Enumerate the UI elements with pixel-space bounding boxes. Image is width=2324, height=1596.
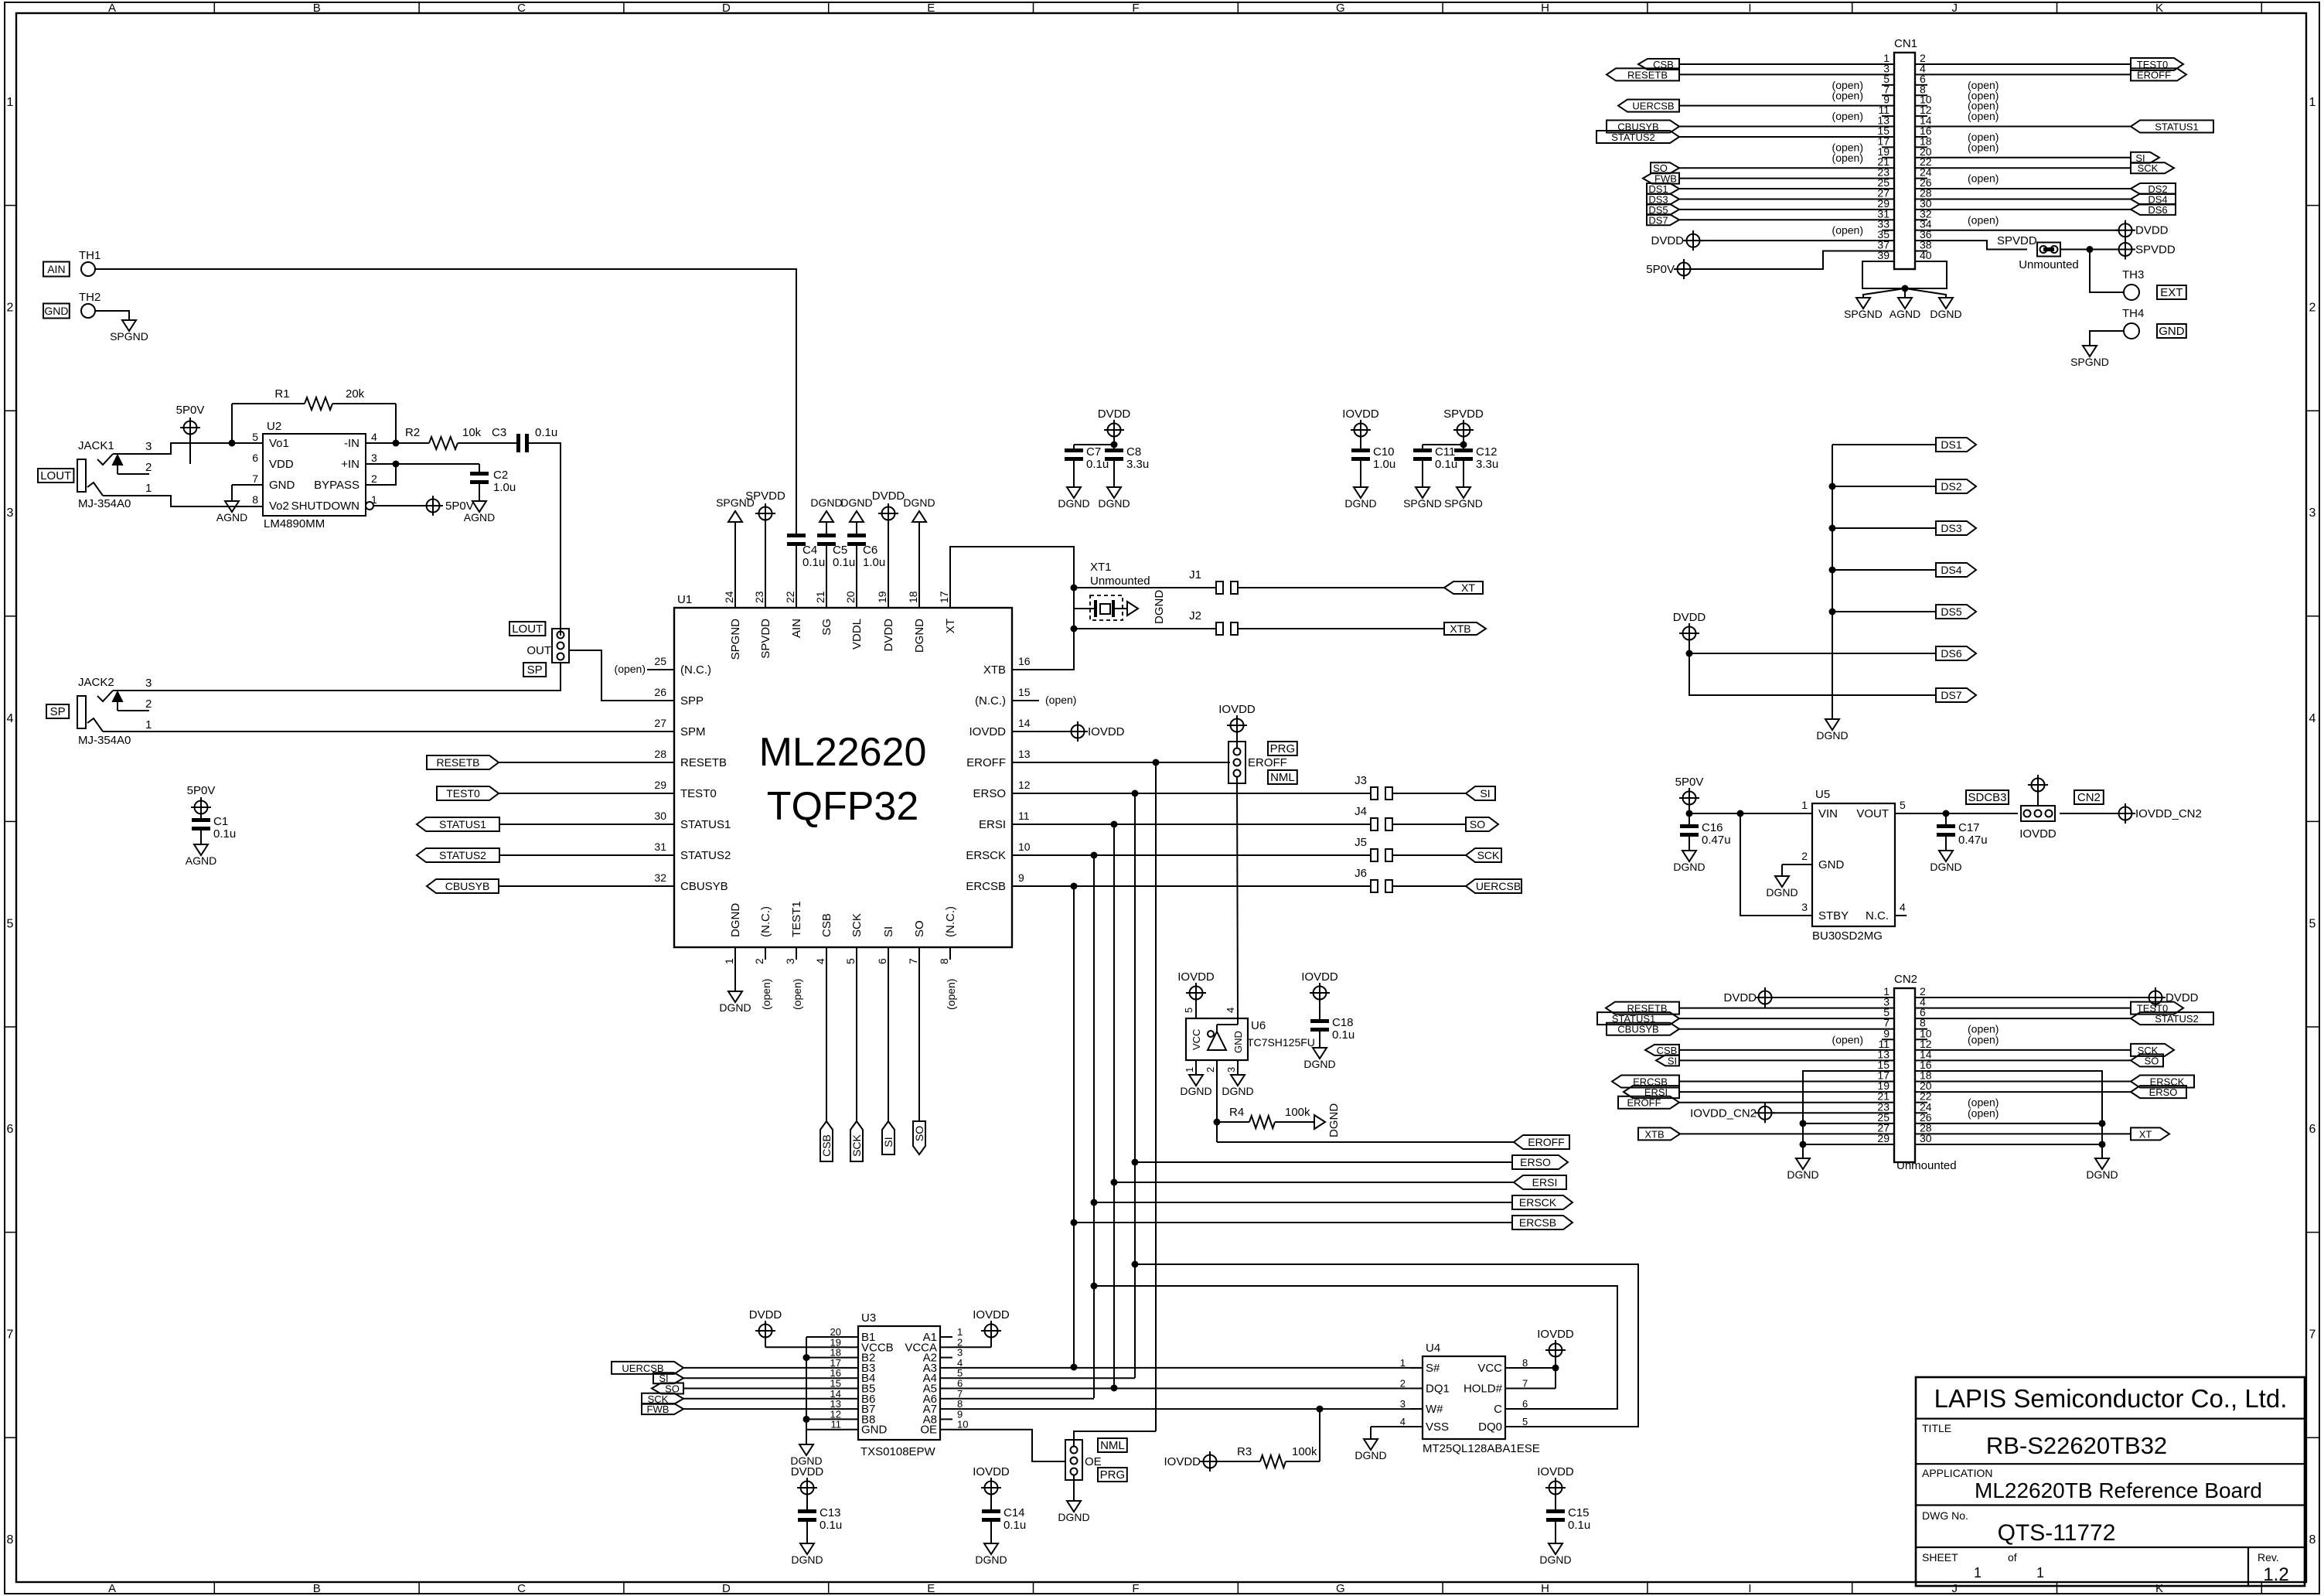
svg-text:15: 15	[1018, 686, 1031, 698]
svg-text:22: 22	[784, 591, 796, 603]
ground DGND at C16	[1673, 851, 1705, 873]
svg-text:LOUT: LOUT	[512, 622, 543, 636]
svg-text:(open): (open)	[1968, 1107, 1999, 1119]
svg-text:20: 20	[844, 591, 857, 603]
svg-text:TH4: TH4	[2122, 307, 2144, 320]
wire OE jumper bottom to DGND	[1073, 1475, 1075, 1501]
svg-text:VCC: VCC	[1477, 1362, 1502, 1375]
svg-text:APPLICATION: APPLICATION	[1922, 1467, 1993, 1479]
ground SPGND at TH2	[110, 320, 148, 343]
svg-text:28: 28	[654, 748, 666, 760]
node STATUS2 flag to U1 pin31	[417, 848, 647, 862]
resistor R4 100k to DGND	[1217, 1106, 1314, 1128]
node ERSO flag from CN2 pin20	[1927, 1086, 2186, 1098]
svg-text:1: 1	[723, 958, 735, 964]
svg-text:4: 4	[7, 712, 14, 725]
svg-text:SPVDD: SPVDD	[1997, 234, 2037, 247]
power IOVDD_CN2 to CN2 pin23	[1690, 1103, 1882, 1123]
(open) at CN1 pin18	[1968, 141, 1999, 153]
svg-text:16: 16	[1018, 655, 1031, 667]
svg-text:(open): (open)	[760, 979, 772, 1010]
pin 3 (open)	[791, 947, 803, 1010]
header OE select (NML/PRG)	[1065, 1440, 1102, 1480]
svg-text:C4: C4	[802, 544, 817, 557]
svg-text:100k: 100k	[1292, 1445, 1317, 1458]
(open) at CN2 pin10	[1968, 1033, 1999, 1045]
node SI flag	[1466, 786, 1495, 800]
wire EROFF to OE jumper top pin	[1074, 1431, 1156, 1446]
svg-text:H: H	[1541, 2, 1549, 15]
svg-text:C6: C6	[863, 544, 877, 557]
svg-text:U3: U3	[861, 1311, 876, 1325]
svg-text:ERSCK: ERSCK	[966, 849, 1006, 862]
svg-text:21: 21	[814, 591, 826, 603]
svg-text:C16: C16	[1702, 821, 1723, 834]
power IOVDD at U6 pin5	[1177, 970, 1215, 1018]
ground DGND at XT1 case	[1127, 590, 1166, 624]
wire DS3	[1832, 527, 1936, 529]
svg-text:VDD: VDD	[269, 458, 294, 471]
svg-text:AIN: AIN	[790, 619, 803, 638]
svg-text:(open): (open)	[1045, 694, 1076, 706]
svg-text:0.1u: 0.1u	[1332, 1028, 1355, 1042]
wire DS6	[1686, 650, 1937, 657]
capacitor C18 0.1u at U6	[1301, 970, 1355, 1048]
svg-text:C17: C17	[1958, 821, 1980, 834]
svg-text:CBUSYB: CBUSYB	[680, 880, 728, 893]
node SI flag to U3 B4	[653, 1373, 846, 1384]
wire U3 A7 to U4 W# (FWB net)	[952, 1406, 1423, 1413]
svg-text:GND: GND	[1818, 858, 1845, 871]
node ERSI flag to CN2 pin19	[1624, 1086, 1882, 1098]
svg-text:(open): (open)	[1968, 110, 1999, 122]
ground SPGND at CN1	[1844, 298, 1883, 320]
svg-text:C2: C2	[493, 469, 508, 482]
wire U3 OE to jumper	[952, 1430, 1065, 1461]
svg-text:AIN: AIN	[47, 263, 65, 275]
svg-text:40: 40	[1920, 249, 1932, 261]
svg-text:VSS: VSS	[1426, 1420, 1449, 1434]
ground DGND at DS bus	[1816, 719, 1848, 742]
wire U6 pin2 output (EROFF)	[1214, 1060, 1221, 1142]
header PRG/NML select jumper	[1228, 742, 1287, 783]
node DS7 flag to CN1 pin31	[1647, 214, 1882, 226]
svg-text:4: 4	[371, 431, 377, 443]
node DS1 flag	[1936, 438, 1976, 452]
wire JACK2 tip to OUT header	[113, 664, 561, 691]
wire U2 +IN pin3 to C2	[366, 461, 479, 468]
svg-text:UERCSB: UERCSB	[1632, 101, 1674, 112]
pin 15 (open)	[1045, 694, 1076, 706]
svg-text:11: 11	[1018, 810, 1030, 822]
wire U3 A5 to U4 DQ1 (ERSI net)	[952, 1388, 1423, 1390]
svg-text:2: 2	[145, 697, 152, 711]
svg-text:0.1u: 0.1u	[1435, 458, 1457, 471]
svg-text:1: 1	[145, 482, 152, 495]
svg-text:C15: C15	[1568, 1506, 1590, 1519]
svg-text:TEST0: TEST0	[446, 787, 480, 800]
svg-text:SG: SG	[820, 619, 833, 636]
svg-text:XT: XT	[2139, 1128, 2152, 1140]
ground DGND at C14	[975, 1543, 1007, 1566]
svg-text:17: 17	[938, 591, 950, 603]
(open) at CN1 pin16	[1968, 131, 1999, 143]
ground DGND at OE jumper	[1058, 1501, 1089, 1523]
wire DS1	[1832, 444, 1936, 445]
svg-text:DGND: DGND	[1673, 861, 1705, 873]
svg-text:0.1u: 0.1u	[1004, 1519, 1026, 1532]
svg-text:1.2: 1.2	[2263, 1564, 2288, 1585]
node SO flag	[913, 1121, 925, 1154]
jumper J5	[1355, 836, 1392, 861]
svg-text:SPGND: SPGND	[1403, 497, 1442, 510]
svg-text:ERSO: ERSO	[1520, 1156, 1551, 1168]
wire ERSO branch to U4 DQ0	[1135, 1264, 1638, 1427]
svg-text:R4: R4	[1229, 1106, 1244, 1119]
svg-text:DS4: DS4	[1941, 564, 1961, 576]
svg-text:25: 25	[654, 655, 666, 667]
wire J5 to SCK flag	[1392, 854, 1466, 856]
node TH2 (GND terminal)	[43, 291, 101, 319]
svg-text:1: 1	[2036, 1565, 2044, 1581]
svg-text:SCK: SCK	[1477, 849, 1500, 861]
ground SPGND at C11	[1403, 487, 1442, 510]
svg-text:7: 7	[7, 1328, 14, 1342]
svg-text:3: 3	[145, 440, 152, 453]
svg-text:3: 3	[145, 677, 152, 690]
svg-text:SCK: SCK	[2138, 162, 2159, 174]
wire ERSI to flag	[1114, 1182, 1514, 1183]
svg-text:AGND: AGND	[1890, 308, 1920, 320]
svg-text:STATUS2: STATUS2	[439, 849, 486, 861]
svg-text:IOVDD: IOVDD	[1088, 725, 1125, 738]
svg-text:SO: SO	[913, 920, 926, 937]
svg-text:J6: J6	[1355, 867, 1367, 880]
svg-text:DGND: DGND	[1222, 1085, 1253, 1097]
power IOVDD at U4 VCC/HOLD#	[1518, 1328, 1574, 1389]
svg-text:DVDD: DVDD	[1651, 234, 1684, 247]
wire U3 B1/B2/B8/GND to DGND	[803, 1337, 847, 1444]
svg-text:XT1: XT1	[1090, 561, 1112, 574]
wire to TH3	[2090, 250, 2124, 293]
svg-text:UERCSB: UERCSB	[1476, 880, 1521, 892]
connector CN2 30-pin (Unmounted header)	[1877, 973, 1956, 1172]
node LOUT label at header	[509, 622, 545, 636]
svg-text:SI: SI	[882, 1137, 895, 1147]
node CBUSYB flag to U1 pin32	[427, 879, 647, 893]
svg-text:(N.C.): (N.C.)	[759, 906, 772, 937]
wire ERSI from U1 pin11 to J4	[1039, 821, 1371, 828]
svg-text:0.1u: 0.1u	[833, 556, 855, 569]
wire J1 to XT flag	[1238, 587, 1444, 588]
svg-text:5: 5	[1183, 1008, 1194, 1013]
fuse SPVDD jumper (Unmounted)	[2019, 243, 2079, 272]
node SI flag	[882, 1121, 895, 1154]
svg-text:DVDD: DVDD	[1098, 408, 1131, 421]
svg-text:3.3u: 3.3u	[1476, 458, 1498, 471]
svg-text:of: of	[2008, 1551, 2017, 1564]
svg-text:C12: C12	[1476, 445, 1498, 459]
svg-text:GND: GND	[861, 1424, 888, 1437]
wire ERSO from U1 pin12 to J3	[1039, 790, 1371, 797]
node CSB flag to CN2 pin11	[1645, 1045, 1882, 1056]
svg-text:26: 26	[654, 686, 666, 698]
node DS3 flag	[1936, 521, 1976, 535]
svg-text:AGND: AGND	[464, 511, 495, 523]
(open) at CN2 pin24	[1968, 1107, 1999, 1119]
svg-text:(open): (open)	[1968, 213, 1999, 226]
wire C3 to OUT header	[526, 443, 561, 636]
svg-text:DGND: DGND	[2086, 1168, 2118, 1181]
wire U5 STBY strap	[1740, 813, 1812, 916]
capacitor C12 3.3u	[1454, 445, 1498, 487]
svg-text:DS5: DS5	[1941, 605, 1961, 618]
wire 5P0V to U5 VIN	[1689, 810, 1812, 817]
capacitor C10 1.0u	[1351, 445, 1395, 487]
svg-text:1: 1	[145, 718, 152, 731]
svg-text:J4: J4	[1355, 805, 1367, 818]
svg-text:DVDD: DVDD	[1673, 611, 1706, 624]
ground DGND above C6	[840, 496, 872, 522]
svg-text:Vo2: Vo2	[269, 500, 289, 513]
svg-text:2: 2	[753, 958, 765, 964]
svg-text:ERSCK: ERSCK	[1519, 1196, 1557, 1209]
power IOVDD at U1 pin14	[1068, 721, 1125, 742]
svg-text:SI: SI	[1480, 787, 1490, 800]
svg-text:STATUS2: STATUS2	[680, 849, 731, 862]
node SO flag to U3 B5	[652, 1383, 846, 1395]
wire XT line to J1	[1071, 585, 1217, 592]
svg-text:2: 2	[1205, 1067, 1216, 1073]
node SCK flag	[850, 1121, 863, 1161]
svg-text:(open): (open)	[1832, 224, 1863, 237]
wire DS5	[1832, 611, 1936, 612]
node CSB flag	[820, 1121, 833, 1161]
svg-text:DVDD: DVDD	[872, 489, 905, 503]
node EROFF flag	[1514, 1135, 1569, 1149]
IC U3 TXS0108EPW level shifter	[830, 1311, 969, 1458]
svg-text:TXS0108EPW: TXS0108EPW	[860, 1445, 936, 1458]
svg-text:IOVDD: IOVDD	[1164, 1455, 1201, 1468]
svg-text:MT25QL128ABA1ESE: MT25QL128ABA1ESE	[1423, 1442, 1540, 1455]
svg-text:BYPASS: BYPASS	[314, 479, 360, 492]
ground AGND at C2	[464, 501, 495, 523]
power DVDD at C7/C8	[1098, 408, 1131, 452]
svg-text:IOVDD: IOVDD	[2019, 827, 2057, 841]
svg-text:TEST1: TEST1	[790, 901, 803, 937]
node DS4 flag	[1936, 563, 1976, 577]
node DS1 flag to CN1 pin25	[1647, 183, 1882, 195]
capacitor C14 0.1u	[982, 1506, 1026, 1543]
svg-text:SCK: SCK	[850, 1134, 863, 1156]
svg-text:8: 8	[7, 1533, 14, 1547]
svg-text:(open): (open)	[1968, 172, 1999, 185]
power DVDD to CN1 pin35	[1651, 230, 1882, 251]
svg-text:J5: J5	[1355, 836, 1367, 849]
svg-text:GND: GND	[2159, 325, 2185, 338]
svg-text:A: A	[108, 1582, 116, 1595]
ground DGND at CN2 right	[2086, 1158, 2118, 1181]
resistor R2 10k	[405, 426, 516, 449]
ground AGND at U2 pin7	[216, 501, 247, 523]
svg-text:IOVDD: IOVDD	[1177, 970, 1215, 984]
svg-text:IOVDD: IOVDD	[1218, 703, 1256, 716]
svg-text:SPVDD: SPVDD	[1443, 408, 1484, 421]
power SPVDD terminal	[2115, 240, 2176, 260]
wire U2 -IN pin4	[366, 440, 429, 447]
svg-text:R1: R1	[274, 387, 289, 401]
svg-text:5: 5	[1900, 799, 1906, 811]
wire CN1 pin39 ground	[1862, 261, 1905, 288]
svg-text:0.1u: 0.1u	[802, 556, 825, 569]
svg-text:ERSI: ERSI	[1532, 1176, 1558, 1188]
svg-text:DGND: DGND	[719, 1001, 751, 1014]
svg-text:DVDD: DVDD	[791, 1465, 824, 1478]
node SI flag from CN1 pin20	[1927, 152, 2159, 164]
capacitor C13 0.1u	[798, 1506, 842, 1543]
svg-text:2: 2	[371, 472, 377, 485]
wire CSB from U1 pin4	[826, 947, 827, 1121]
node ERSI flag	[1514, 1175, 1566, 1189]
ground DGND right-arrow at R4	[1314, 1103, 1341, 1137]
svg-text:J: J	[1951, 2, 1958, 15]
ground DGND at C7	[1058, 487, 1089, 510]
resistor R1 20k feedback	[232, 387, 396, 443]
node EROFF flag to CN2 pin21	[1618, 1096, 1882, 1109]
node SP label at header	[523, 663, 546, 677]
(open) at CN1 pin6	[1968, 79, 1999, 91]
svg-text:2: 2	[145, 461, 152, 474]
node DS5 flag	[1936, 605, 1976, 619]
node CBUSYB flag to CN2 pin7	[1607, 1023, 1882, 1035]
power IOVDD at U3 VCCA	[952, 1308, 1010, 1347]
node TEST0 flag from CN1 pin2	[1927, 58, 2183, 70]
svg-text:SHEET: SHEET	[1922, 1551, 1958, 1564]
svg-text:IOVDD: IOVDD	[1537, 1328, 1574, 1341]
svg-text:1: 1	[1801, 799, 1808, 811]
svg-text:12: 12	[1018, 779, 1031, 791]
wire U2 SHUTDOWN pin1 to 5P0V	[373, 505, 426, 506]
svg-text:SO: SO	[2145, 1055, 2159, 1066]
svg-text:3: 3	[371, 452, 377, 464]
svg-text:CN2: CN2	[2077, 791, 2101, 804]
svg-text:1: 1	[1400, 1357, 1406, 1369]
svg-text:DGND: DGND	[1355, 1449, 1386, 1461]
svg-text:S#: S#	[1426, 1362, 1440, 1375]
svg-text:SDCB3: SDCB3	[1968, 791, 2006, 804]
node STATUS2 flag from CN2 pin6	[1927, 1012, 2213, 1025]
svg-text:C5: C5	[833, 544, 847, 557]
svg-text:EXT: EXT	[2160, 286, 2183, 299]
svg-text:MJ-354A0: MJ-354A0	[78, 734, 131, 747]
op-amp U2 LM4890MM audio amplifier	[252, 420, 377, 530]
svg-text:6: 6	[2309, 1123, 2316, 1136]
svg-text:30: 30	[654, 810, 666, 822]
svg-text:U6: U6	[1251, 1019, 1266, 1032]
wire U2 BYPASS pin2	[366, 464, 396, 485]
wire SCK from U1 pin5	[856, 947, 857, 1121]
wire header to IOVDD_CN2	[2060, 813, 2118, 814]
svg-text:SPGND: SPGND	[729, 619, 742, 660]
svg-text:0.1u: 0.1u	[820, 1519, 842, 1532]
svg-text:SPGND: SPGND	[1844, 308, 1883, 320]
wire U2 GND pin7 to AGND	[232, 485, 263, 501]
node SDCB3 label	[1966, 790, 2009, 804]
node DS5 flag to CN1 pin29	[1647, 204, 1882, 216]
svg-text:OE: OE	[920, 1424, 937, 1437]
svg-text:EROFF: EROFF	[1627, 1097, 1661, 1109]
svg-text:CN2: CN2	[1894, 973, 1917, 986]
wire OUT header bottom pin to JACK2 tip	[560, 663, 561, 667]
svg-text:3: 3	[2309, 506, 2316, 520]
svg-text:C: C	[1494, 1403, 1502, 1416]
svg-text:STATUS2: STATUS2	[2155, 1013, 2199, 1025]
ground DGND at C15	[1539, 1543, 1571, 1566]
node PRG label	[1098, 1468, 1127, 1482]
wire XTB line to J2	[1071, 626, 1217, 633]
svg-text:U5: U5	[1815, 788, 1830, 801]
node STATUS1 flag from CN1 pin14	[1927, 121, 2213, 133]
svg-text:1: 1	[7, 96, 14, 109]
wire EROFF from U1 pin13 to PRG/NML jumper	[1039, 759, 1230, 766]
wire EROFF vertical bus	[1155, 762, 1157, 1431]
svg-text:NML: NML	[1270, 771, 1295, 784]
wire ERSCK to flag	[1094, 1202, 1512, 1203]
svg-text:C: C	[517, 1582, 526, 1595]
svg-text:STBY: STBY	[1818, 909, 1849, 922]
svg-text:SPVDD: SPVDD	[2135, 244, 2176, 257]
power SPVDD at C11/C12	[1443, 408, 1484, 452]
svg-text:DS2: DS2	[1941, 480, 1961, 493]
svg-text:FWB: FWB	[647, 1403, 670, 1415]
capacitor C5 0.1u on SG	[817, 522, 855, 608]
svg-text:DGND: DGND	[1153, 590, 1166, 624]
svg-text:DVDD: DVDD	[882, 619, 895, 652]
svg-text:4: 4	[1400, 1416, 1406, 1427]
node CBUSYB flag to CN1 pin13	[1607, 121, 1882, 133]
svg-text:(open): (open)	[1968, 1033, 1999, 1045]
svg-text:11: 11	[831, 1419, 842, 1431]
node ERSO flag	[1512, 1155, 1568, 1169]
node EROFF flag from CN1 pin4	[1927, 68, 2186, 80]
wire XT from U1 pin17	[950, 547, 1074, 608]
power DVDD terminal from CN1 pin34	[1927, 220, 2169, 240]
svg-text:RESETB: RESETB	[1627, 69, 1668, 80]
wire CN2 pin15/25/29 to DGND	[1800, 1071, 1883, 1158]
node TH4 terminal GND	[2122, 307, 2186, 339]
svg-text:1: 1	[1184, 1067, 1195, 1073]
svg-text:3: 3	[1801, 901, 1808, 913]
svg-text:SHUTDOWN: SHUTDOWN	[291, 500, 360, 513]
svg-text:4: 4	[814, 958, 826, 964]
svg-text:RESETB: RESETB	[436, 756, 479, 769]
svg-text:SPP: SPP	[680, 694, 704, 708]
svg-text:DQ1: DQ1	[1426, 1383, 1450, 1396]
svg-text:7: 7	[907, 958, 919, 964]
ground DGND at CN1	[1930, 298, 1961, 320]
power IOVDD_CN2 terminal	[2115, 803, 2202, 824]
svg-text:SPVDD: SPVDD	[759, 619, 772, 659]
(open) at CN1 pin32	[1968, 213, 1999, 226]
svg-text:K: K	[2155, 1582, 2163, 1595]
svg-text:B: B	[313, 1582, 321, 1595]
capacitor C8 3.3u	[1105, 445, 1149, 487]
wire ERSCK from U1 pin10 to J5	[1039, 852, 1371, 859]
svg-text:27: 27	[654, 717, 666, 729]
svg-text:SP: SP	[50, 705, 66, 718]
svg-text:VCC: VCC	[1191, 1029, 1202, 1050]
(open) at CN1 pin33	[1832, 224, 1863, 237]
